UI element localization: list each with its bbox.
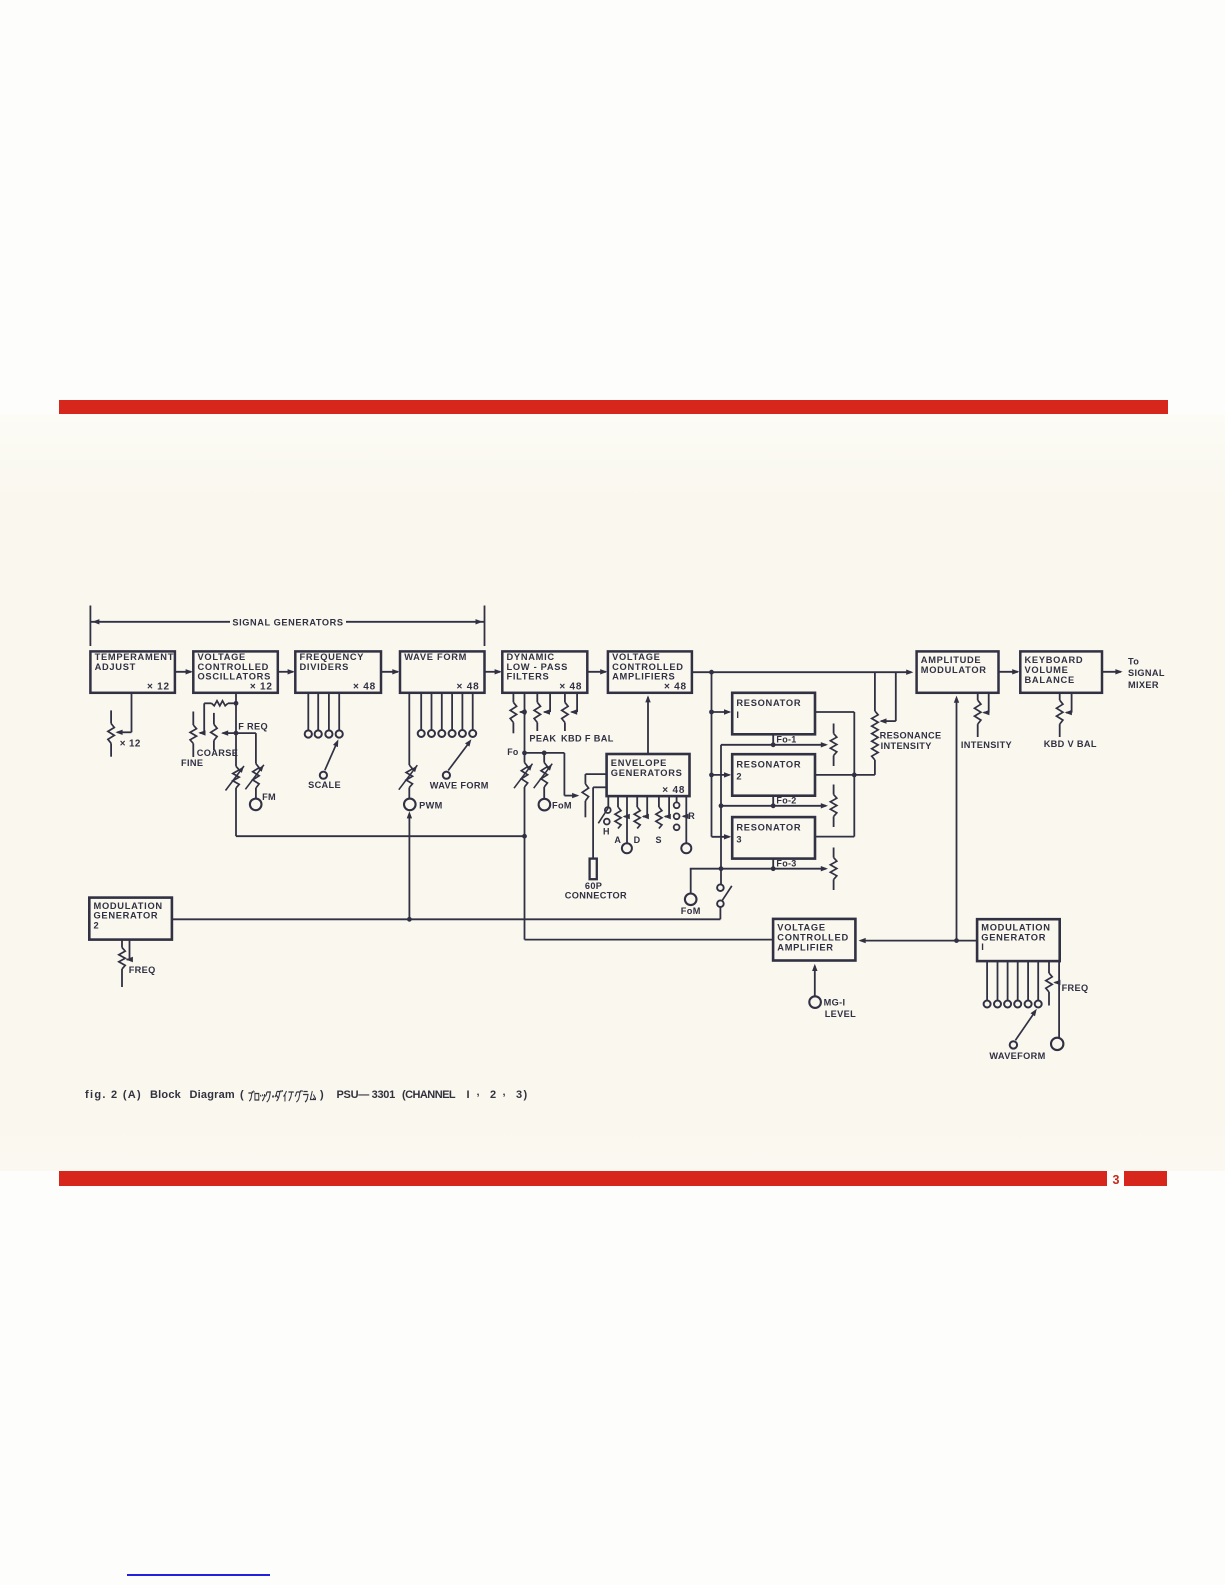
label PWM bbox=[419, 801, 443, 811]
wire U6 output to U7 (main signal line) bbox=[692, 670, 914, 675]
svg-text:FILTERS: FILTERS bbox=[507, 672, 550, 682]
svg-text:KBD V BAL: KBD V BAL bbox=[1044, 739, 1097, 749]
label H bbox=[603, 826, 610, 836]
label To SIGNAL MIXER bbox=[1128, 657, 1165, 690]
label D bbox=[634, 835, 641, 845]
box U3 FREQUENCY DIVIDERS bbox=[295, 651, 381, 692]
label RESONANCE INTENSITY bbox=[880, 731, 942, 752]
wire MG1 to U11 input bbox=[859, 938, 978, 943]
junction main line / resonator trunk bbox=[709, 670, 714, 675]
wire arrow U1 to U2 bbox=[175, 669, 193, 674]
svg-text:A: A bbox=[614, 835, 621, 845]
resistor VCO coarse feed bbox=[204, 701, 236, 706]
label FREQ (MG2) bbox=[129, 965, 156, 975]
svg-text:RESONATOR: RESONATOR bbox=[736, 823, 801, 833]
variable resistor FoM depth bbox=[534, 753, 553, 799]
svg-text:GENERATOR: GENERATOR bbox=[981, 932, 1046, 942]
variable resistor keyboard CV (to FM bus) bbox=[226, 766, 245, 791]
knob MG1 level bbox=[1051, 1038, 1063, 1050]
svg-text:LOW - PASS: LOW - PASS bbox=[507, 662, 569, 672]
potentiometer MG1 FREQ bbox=[1046, 961, 1052, 1005]
potentiometer INTENSITY bbox=[975, 693, 981, 737]
svg-text:INTENSITY: INTENSITY bbox=[961, 740, 1012, 750]
svg-text:× 48: × 48 bbox=[664, 681, 687, 692]
svg-text:SIGNAL GENERATORS: SIGNAL GENERATORS bbox=[232, 618, 343, 628]
label F REQ bbox=[238, 722, 268, 732]
box U6 VOLTAGE CONTROLLED AMPLIFIERS bbox=[608, 651, 692, 692]
knob release with selector arrow bbox=[681, 796, 691, 853]
knob FoM (filter modulation) bbox=[539, 799, 551, 811]
svg-text:CONTROLLED: CONTROLLED bbox=[612, 662, 684, 672]
wire arrow into R3 bbox=[712, 834, 732, 839]
potentiometer S (sustain) bbox=[656, 796, 662, 828]
svg-text:BALANCE: BALANCE bbox=[1025, 675, 1075, 685]
node SIGNAL GENERATORS bracket bbox=[90, 606, 484, 647]
wire KBD F BAL wiper bbox=[570, 693, 577, 715]
connector 60P line bbox=[593, 787, 607, 858]
wire Fo-3 stub from resonator bbox=[772, 859, 774, 869]
svg-text:FINE: FINE bbox=[181, 758, 203, 768]
potentiometer A (attack) bbox=[615, 796, 621, 828]
svg-text:CONTROLLED: CONTROLLED bbox=[198, 662, 270, 672]
box U11 VOLTAGE CONTROLLED AMPLIFIER bbox=[773, 919, 855, 961]
label FoM bbox=[681, 906, 701, 916]
label KBD V BAL bbox=[1044, 739, 1097, 749]
svg-text:SCALE: SCALE bbox=[308, 780, 341, 790]
svg-text:PWM: PWM bbox=[419, 801, 443, 811]
junction resonator output bus bbox=[852, 773, 857, 778]
label KBD F BAL bbox=[561, 734, 614, 744]
label WAVEFORM bbox=[989, 1051, 1045, 1061]
svg-text:FREQUENCY: FREQUENCY bbox=[300, 652, 365, 662]
label FREQ (MG1) bbox=[1062, 983, 1089, 993]
label X12 value bbox=[120, 738, 141, 749]
variable resistor Fo modulation depth bbox=[514, 753, 533, 836]
variable resistor FM depth bbox=[245, 764, 264, 799]
svg-text:× 48: × 48 bbox=[559, 681, 582, 692]
wire KBD V BAL wiper bbox=[1065, 693, 1072, 716]
wire tremolo riser to U7 bbox=[954, 696, 959, 941]
box U4 WAVE FORM bbox=[400, 651, 485, 692]
svg-text:MODULATION: MODULATION bbox=[94, 901, 163, 911]
label PEAK bbox=[529, 734, 556, 744]
svg-text:WAVE FORM: WAVE FORM bbox=[404, 652, 467, 662]
label SCALE bbox=[308, 780, 341, 790]
box U7 AMPLITUDE MODULATOR bbox=[917, 651, 999, 692]
wire D wiper bbox=[642, 796, 649, 819]
svg-text:MODULATION: MODULATION bbox=[981, 923, 1050, 933]
wire Fo pin with wiper arrow bbox=[519, 693, 527, 753]
svg-text:CONNECTOR: CONNECTOR bbox=[565, 891, 627, 901]
label INTENSITY bbox=[961, 740, 1012, 750]
pins U4 waveform outputs bbox=[418, 693, 477, 737]
svg-text:FoM: FoM bbox=[552, 801, 572, 811]
wire resonator input trunk bbox=[711, 672, 713, 837]
wire U1 to temperament pot wiper bbox=[115, 693, 131, 735]
wire INTENSITY wiper bbox=[982, 693, 989, 716]
knob SCALE selector bbox=[320, 739, 339, 778]
label Fo-3 bbox=[776, 859, 796, 869]
svg-text:Fo: Fo bbox=[507, 747, 519, 757]
label FM bbox=[262, 792, 276, 802]
svg-text:D: D bbox=[634, 835, 641, 845]
junction MG2 line / PWM riser bbox=[407, 917, 412, 922]
svg-text:SIGNAL: SIGNAL bbox=[1128, 668, 1165, 678]
svg-text:S: S bbox=[656, 835, 662, 845]
node Fo distribution bbox=[522, 751, 564, 756]
svg-text:RESONATOR: RESONATOR bbox=[736, 698, 801, 708]
pins U12 waveform outputs bbox=[984, 961, 1042, 1007]
box R1 RESONATOR I bbox=[732, 693, 815, 735]
box R2 RESONATOR 2 bbox=[732, 754, 815, 796]
svg-text:VOLUME: VOLUME bbox=[1025, 665, 1069, 675]
svg-text:VOLTAGE: VOLTAGE bbox=[612, 652, 660, 662]
svg-text:TEMPERAMENT: TEMPERAMENT bbox=[95, 652, 175, 662]
wire to FINE pot wiper bbox=[198, 703, 205, 735]
pins R release selector circles bbox=[674, 796, 680, 830]
wire arrow U2 to U3 bbox=[278, 669, 295, 674]
label MG-1 LEVEL bbox=[824, 997, 856, 1019]
label A bbox=[614, 835, 621, 845]
svg-text:MIXER: MIXER bbox=[1128, 680, 1159, 690]
svg-text:FM: FM bbox=[262, 792, 276, 802]
svg-text:PEAK: PEAK bbox=[529, 734, 556, 744]
svg-text:WAVEFORM: WAVEFORM bbox=[989, 1051, 1045, 1061]
svg-text:FREQ: FREQ bbox=[1062, 983, 1089, 993]
wire U11 output to Fo-mod bus bbox=[525, 836, 774, 939]
resistor Fo-2 depth bbox=[830, 785, 836, 828]
wire U2 frequency-control pin bbox=[234, 693, 239, 767]
svg-text:AMPLIFIERS: AMPLIFIERS bbox=[612, 672, 675, 682]
wire PEAK wiper bbox=[543, 693, 550, 715]
svg-text:VOLTAGE: VOLTAGE bbox=[198, 652, 246, 662]
box R3 RESONATOR 3 bbox=[732, 817, 815, 859]
knob attack with wiper arrow bbox=[622, 796, 632, 853]
label S bbox=[656, 835, 662, 845]
wire resonance intensity wiper to U7 input bbox=[879, 672, 896, 724]
svg-text:RESONANCE: RESONANCE bbox=[880, 731, 942, 741]
svg-text:COARSE: COARSE bbox=[197, 748, 238, 758]
svg-text:AMPLIFIER: AMPLIFIER bbox=[777, 942, 833, 952]
box U10 MODULATION GENERATOR 2 bbox=[89, 898, 172, 940]
potentiometer X12 temperament bbox=[108, 710, 114, 756]
label 60P CONNECTOR bbox=[565, 881, 627, 901]
svg-text:2: 2 bbox=[736, 771, 742, 781]
label WAVE FORM bbox=[430, 781, 489, 791]
pin U9 H with switch bbox=[598, 796, 610, 824]
wire F REQ node to FM branch bbox=[236, 733, 256, 764]
svg-text:WAVE FORM: WAVE FORM bbox=[430, 781, 489, 791]
label FINE bbox=[181, 758, 203, 768]
knob FM bbox=[250, 799, 262, 811]
svg-text:× 12: × 12 bbox=[250, 681, 273, 692]
svg-text:MODULATOR: MODULATOR bbox=[921, 665, 987, 675]
wire arrow into R2 bbox=[709, 772, 731, 777]
wire net Fo-2 bbox=[721, 803, 828, 808]
box U12 MODULATION GENERATOR 1 bbox=[977, 919, 1060, 961]
label FoM bbox=[552, 801, 572, 811]
svg-text:INTENSITY: INTENSITY bbox=[881, 741, 932, 751]
wire arrow U7 to U8 bbox=[999, 669, 1020, 674]
svg-text:FREQ: FREQ bbox=[129, 965, 156, 975]
svg-text:× 48: × 48 bbox=[353, 681, 376, 692]
potentiometer D (decay) bbox=[634, 796, 640, 828]
wire MG1 FREQ wiper and level knob bbox=[1053, 961, 1060, 1038]
wire net Fo-3 bbox=[690, 866, 828, 871]
potentiometer filter pot 1 bbox=[510, 693, 516, 734]
box U9 ENVELOPE GENERATORS bbox=[607, 754, 690, 796]
label Fo node bbox=[507, 747, 519, 757]
svg-text:LEVEL: LEVEL bbox=[825, 1009, 856, 1019]
svg-text:Fo-3: Fo-3 bbox=[776, 859, 796, 869]
svg-text:2: 2 bbox=[94, 920, 100, 930]
svg-text:AMPLITUDE: AMPLITUDE bbox=[921, 655, 982, 665]
wire PWM riser from MG2 line bbox=[407, 811, 412, 919]
wire arrow U3 to U4 bbox=[381, 669, 400, 674]
svg-text:H: H bbox=[603, 826, 610, 836]
svg-text:OSCILLATORS: OSCILLATORS bbox=[198, 672, 271, 682]
label R bbox=[688, 811, 695, 821]
resistor Fo-3 depth bbox=[830, 848, 836, 891]
switch FoM on/off bbox=[717, 884, 732, 907]
label SIGNAL GENERATORS bbox=[232, 618, 343, 628]
svg-text:× 12: × 12 bbox=[147, 681, 170, 692]
label Fo-1 bbox=[776, 735, 796, 745]
potentiometer KBD V BAL bbox=[1057, 693, 1063, 737]
wire Fo to envelope-amount pot wiper bbox=[564, 753, 579, 798]
potentiometer MG2 FREQ bbox=[119, 940, 125, 987]
svg-text:RESONATOR: RESONATOR bbox=[736, 760, 801, 770]
wire R1 output bbox=[815, 712, 854, 775]
svg-text:KEYBOARD: KEYBOARD bbox=[1025, 655, 1084, 665]
wire arrow U9 to U6 bbox=[645, 695, 650, 754]
junction Fo-mod / VCA2 output bbox=[522, 834, 527, 839]
svg-text:60P: 60P bbox=[585, 881, 602, 891]
box U5 DYNAMIC LOW-PASS FILTERS bbox=[502, 651, 587, 692]
wire R2 output bbox=[815, 774, 875, 776]
svg-text:× 12: × 12 bbox=[120, 738, 141, 749]
box U2 VOLTAGE CONTROLLED OSCILLATORS bbox=[193, 651, 277, 692]
svg-text:I: I bbox=[981, 942, 984, 952]
wire F REQ node to COARSE wiper bbox=[221, 730, 236, 735]
svg-text:ADJUST: ADJUST bbox=[95, 662, 136, 672]
svg-text:3: 3 bbox=[736, 834, 742, 844]
svg-text:DYNAMIC: DYNAMIC bbox=[507, 652, 555, 662]
wire R3 output bbox=[815, 775, 854, 837]
wire S wiper bbox=[664, 796, 671, 819]
svg-text:× 48: × 48 bbox=[457, 681, 480, 692]
knob WAVE FORM selector bbox=[443, 739, 472, 779]
wire arrow U4 to U5 bbox=[485, 669, 502, 674]
knob MG-1 LEVEL bbox=[809, 964, 821, 1008]
wire Fo-1 stub from resonator bbox=[772, 734, 774, 745]
svg-text:F REQ: F REQ bbox=[238, 722, 268, 732]
svg-text:VOLTAGE: VOLTAGE bbox=[777, 922, 825, 932]
svg-text:KBD F BAL: KBD F BAL bbox=[561, 734, 614, 744]
potentiometer COARSE bbox=[211, 713, 217, 750]
box U1 TEMPERAMENT ADJUST bbox=[90, 651, 174, 692]
svg-text:GENERATOR: GENERATOR bbox=[94, 911, 159, 921]
connector 60P body bbox=[590, 859, 597, 880]
svg-text:× 48: × 48 bbox=[662, 785, 685, 796]
wire arrow U5 to U6 bbox=[587, 669, 607, 674]
wire arrow into R1 bbox=[709, 709, 731, 714]
wire net Fo-1 bbox=[721, 742, 828, 747]
wire MG2 FREQ wiper bbox=[126, 940, 133, 963]
svg-text:MG-I: MG-I bbox=[824, 997, 846, 1007]
junction MG1 line / tremolo riser bbox=[954, 938, 959, 943]
knob FoM (resonator modulation) bbox=[685, 869, 697, 905]
potentiometer PEAK bbox=[534, 693, 540, 731]
box U8 KEYBOARD VOLUME BALANCE bbox=[1020, 651, 1102, 692]
resistor Fo-1 depth bbox=[830, 724, 836, 767]
potentiometer RESONANCE INTENSITY bbox=[872, 672, 878, 775]
wire arrow U8 to signal mixer bbox=[1102, 669, 1123, 674]
pins U3 divider outputs bbox=[305, 693, 343, 738]
potentiometer FINE bbox=[190, 712, 196, 758]
svg-text:FoM: FoM bbox=[681, 906, 701, 916]
label COARSE bbox=[197, 748, 238, 758]
svg-text:GENERATORS: GENERATORS bbox=[611, 768, 683, 778]
knob PWM bbox=[404, 799, 416, 811]
wire FM bus to Fo-mod junction bbox=[236, 788, 525, 836]
wire switch to MG2 line bbox=[719, 907, 721, 919]
knob MG1 WAVEFORM selector bbox=[1010, 1009, 1037, 1049]
wire Fo trunk (Fo-1 to switch) bbox=[719, 745, 724, 885]
wire U10 output to FoM switch bbox=[172, 918, 721, 920]
svg-text:CONTROLLED: CONTROLLED bbox=[777, 932, 849, 942]
potentiometer envelope amount bbox=[582, 774, 606, 817]
wire Fo-2 stub from resonator bbox=[772, 796, 774, 806]
svg-text:Fo-2: Fo-2 bbox=[776, 796, 796, 806]
svg-text:R: R bbox=[688, 811, 695, 821]
svg-text:Fo-1: Fo-1 bbox=[776, 735, 796, 745]
svg-text:I: I bbox=[736, 710, 739, 720]
svg-text:ENVELOPE: ENVELOPE bbox=[611, 758, 667, 768]
potentiometer KBD F BAL bbox=[562, 693, 568, 731]
svg-text:DIVIDERS: DIVIDERS bbox=[300, 662, 350, 672]
variable resistor PWM depth bbox=[399, 693, 418, 799]
svg-text:To: To bbox=[1128, 657, 1139, 667]
label Fo-2 bbox=[776, 796, 796, 806]
